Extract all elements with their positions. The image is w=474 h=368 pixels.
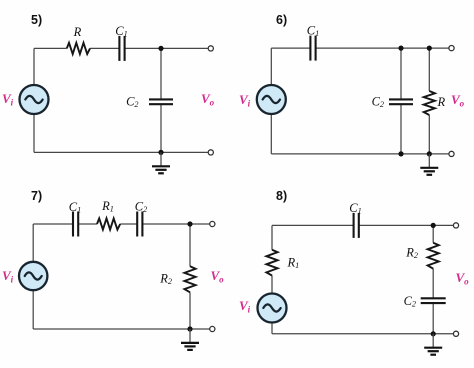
svg-text:5): 5): [31, 13, 42, 27]
svg-text:R: R: [437, 95, 446, 109]
svg-text:7): 7): [31, 189, 42, 203]
svg-text:R: R: [73, 25, 82, 39]
svg-text:8): 8): [276, 189, 287, 203]
svg-text:6): 6): [276, 13, 287, 27]
